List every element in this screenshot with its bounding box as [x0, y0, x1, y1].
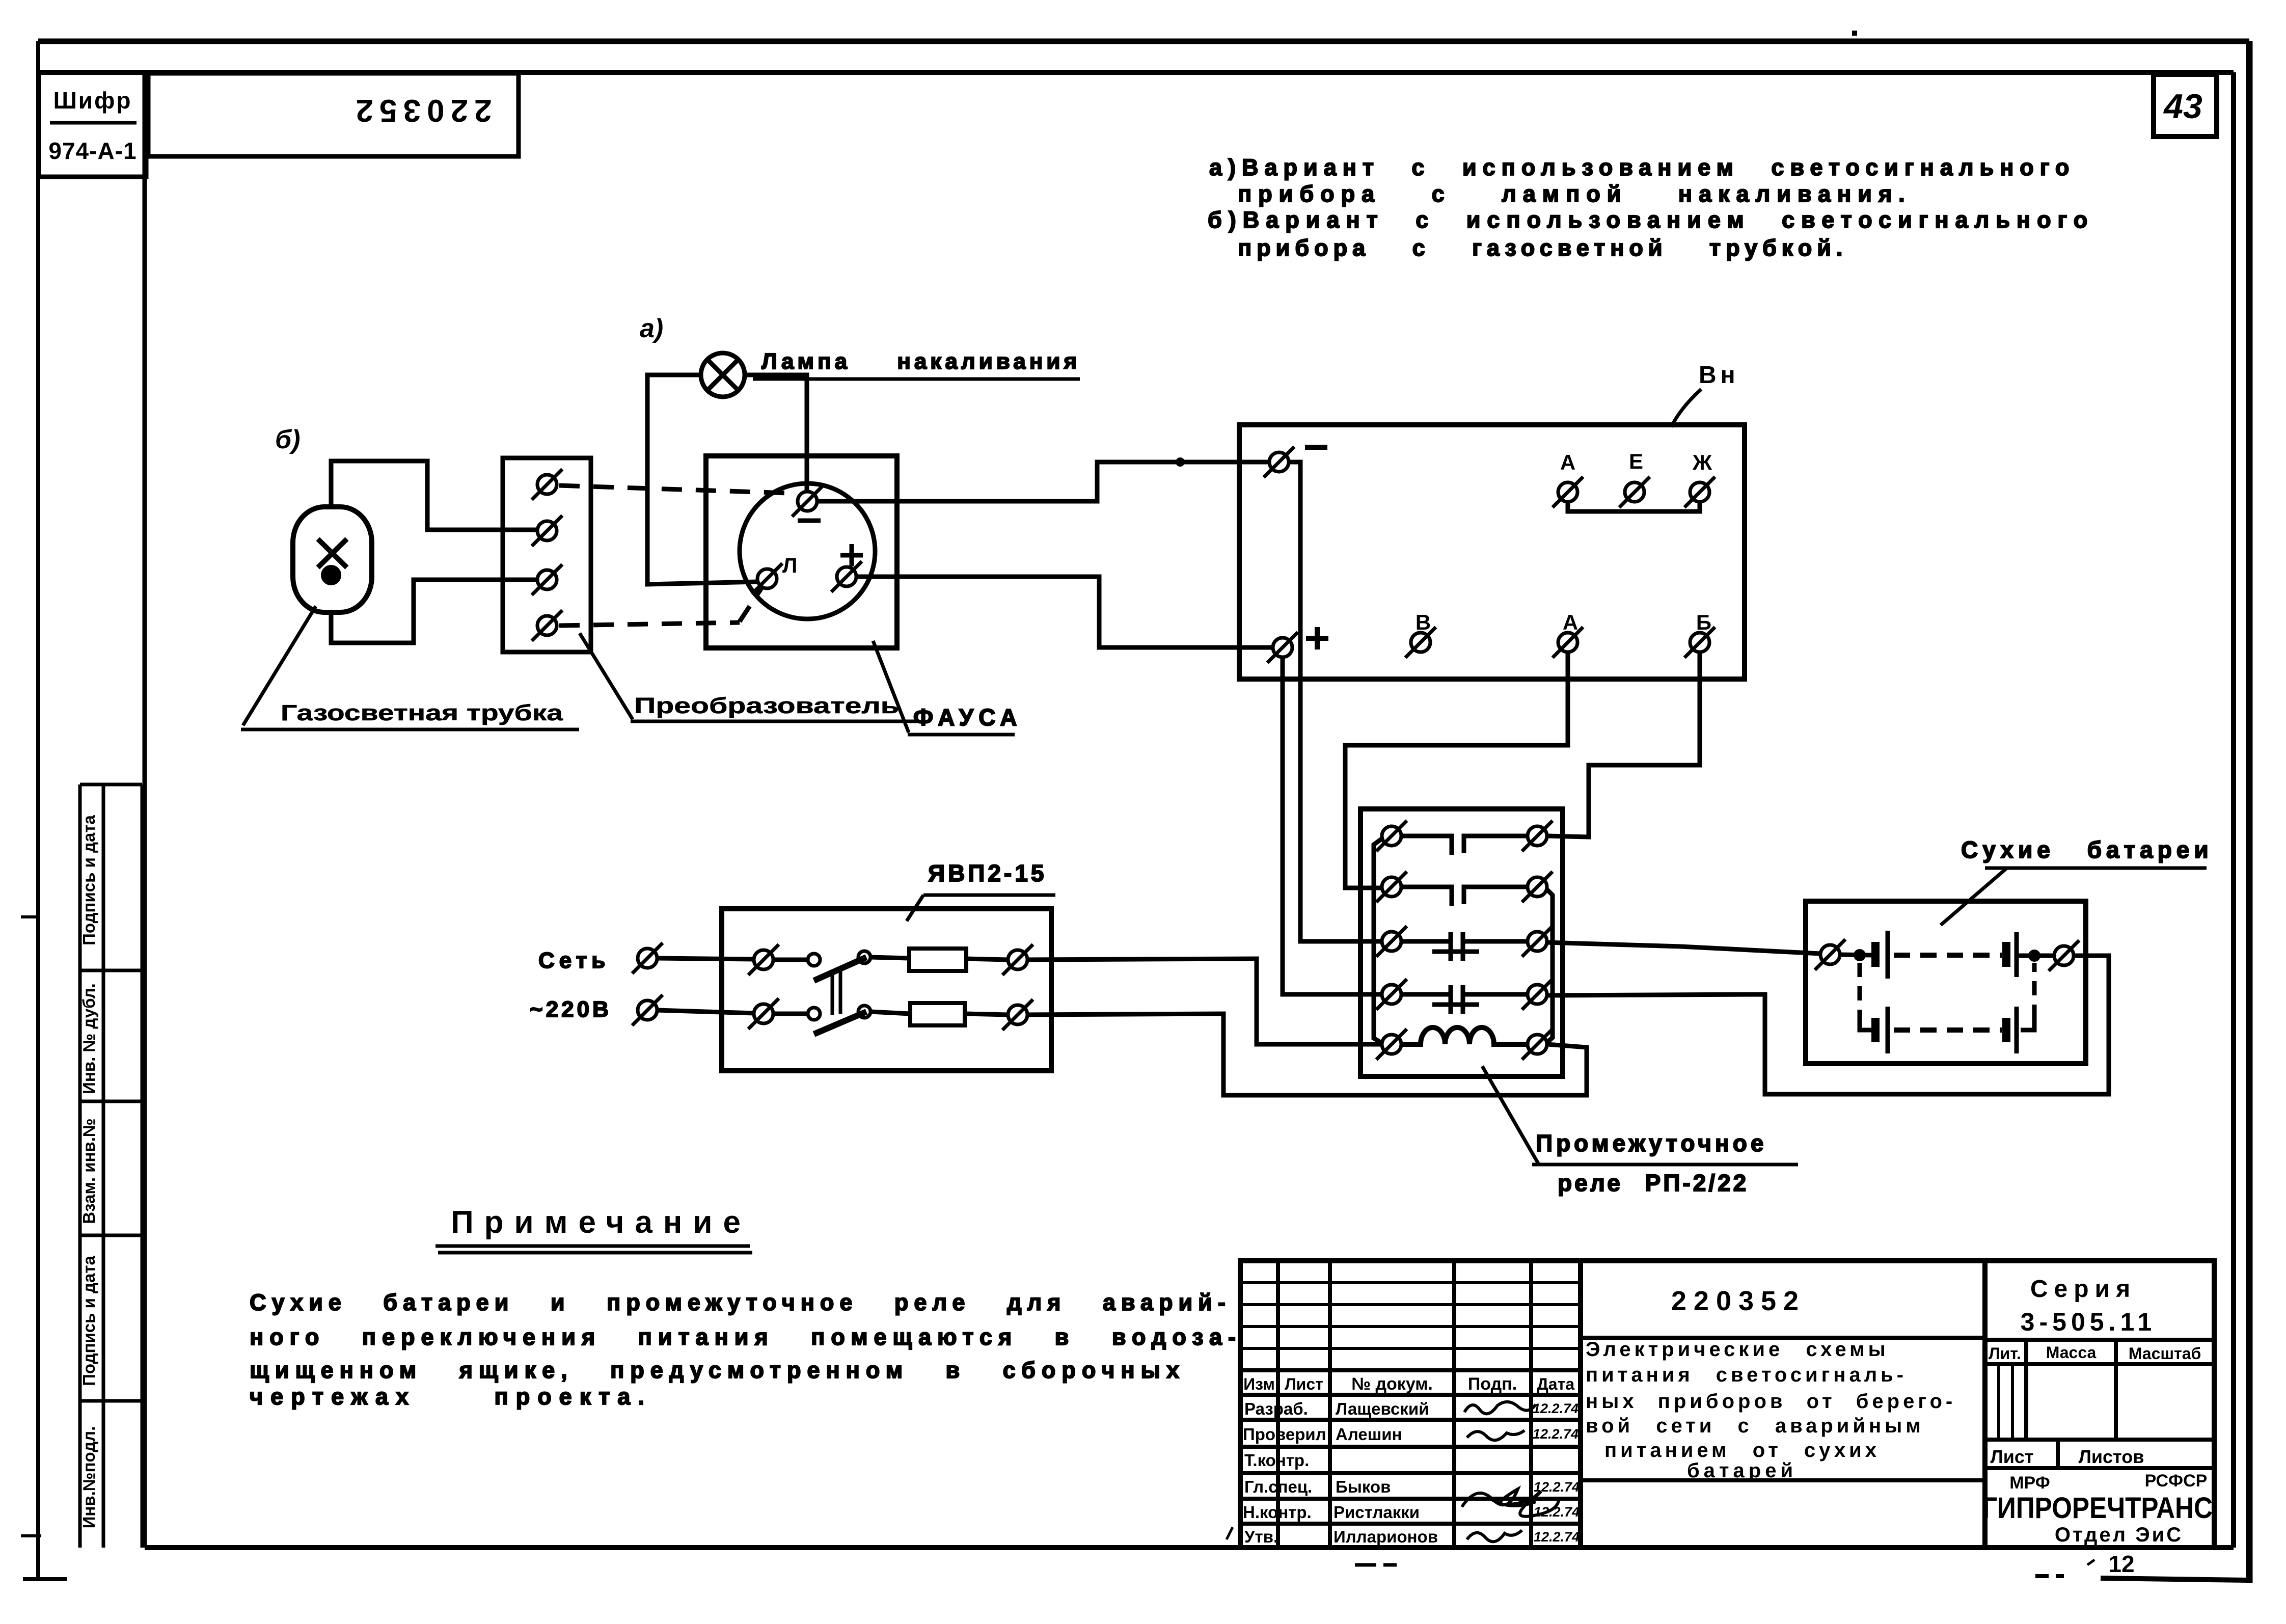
wire pole2 to fuse2	[870, 1012, 910, 1014]
svg-text:Лит.: Лит.	[1989, 1344, 2021, 1363]
relay right bus row2-row5	[1546, 889, 1553, 1043]
wire lamp left leg	[647, 375, 758, 584]
box inner terminal 1	[748, 944, 779, 975]
svg-text:Газосветная трубка: Газосветная трубка	[281, 700, 563, 725]
relay row1 right terminal	[1522, 821, 1553, 851]
svg-text:Утв.: Утв.	[1244, 1527, 1278, 1546]
switch linkage	[831, 970, 834, 1015]
outer border bottom (partial)	[2101, 1578, 2247, 1580]
svg-text:Лист: Лист	[1990, 1446, 2033, 1467]
battery box	[1806, 901, 2086, 1064]
dashed wire strip t4 to FAUSA L	[559, 622, 740, 626]
relay left bus row1-row5	[1374, 838, 1383, 1044]
inner frame bottom	[145, 1545, 2234, 1550]
relay row2 right terminal	[1522, 872, 1553, 902]
svg-text:12.2.74: 12.2.74	[1534, 1529, 1580, 1545]
battery right terminal	[2049, 940, 2079, 971]
svg-text:прибора с лампой накаливания.: прибора с лампой накаливания.	[1238, 181, 1912, 207]
stamp number box 220352	[148, 73, 519, 156]
battery top dashes	[1894, 953, 2002, 958]
wire phase2 into box	[657, 1010, 754, 1013]
relay row3 right terminal	[1522, 926, 1553, 957]
Vn plus terminal	[1267, 632, 1298, 663]
wire relay row4 to battery return	[1547, 956, 2109, 1094]
svg-text:12.2.74: 12.2.74	[1533, 1401, 1579, 1416]
svg-text:Масштаб: Масштаб	[2129, 1344, 2201, 1363]
svg-text:Л: Л	[782, 553, 797, 577]
battery cell 1	[1871, 942, 1880, 967]
box right terminal 1	[1002, 944, 1033, 975]
svg-text:А: А	[1563, 610, 1578, 634]
inner frame left	[143, 72, 147, 1548]
FAUSA box	[706, 456, 897, 648]
fuse 1	[909, 949, 966, 971]
note heading underline	[436, 1244, 750, 1248]
svg-text:Примечание: Примечание	[451, 1205, 751, 1240]
Vn box	[1239, 425, 1745, 679]
strip terminal 2	[532, 516, 562, 546]
svg-text:974-А-1: 974-А-1	[48, 138, 137, 164]
outer border left	[36, 41, 40, 1579]
battery left terminal	[1815, 939, 1845, 970]
switch pole 2 contacts	[808, 1008, 820, 1020]
svg-text:ных приборов от берего-: ных приборов от берего-	[1586, 1390, 1956, 1413]
relay row4 right terminal	[1522, 979, 1553, 1010]
svg-text:12: 12	[2108, 1551, 2134, 1577]
Vn minus terminal	[1264, 447, 1294, 477]
incandescent lamp	[701, 353, 745, 397]
svg-text:Т.контр.: Т.контр.	[1244, 1451, 1309, 1470]
wire tube top to terminal strip	[331, 461, 536, 530]
switch pole 1 contacts	[808, 954, 820, 966]
battery top row wires	[1840, 955, 1872, 955]
svg-text:Сеть: Сеть	[538, 948, 610, 973]
svg-text:Вн: Вн	[1699, 362, 1739, 389]
Vn terminal B bottom	[1684, 627, 1715, 658]
svg-text:3-505.11: 3-505.11	[2021, 1308, 2157, 1336]
Vn terminal Zh top	[1684, 477, 1715, 507]
wire tube bottom to terminal strip	[331, 580, 536, 643]
YAVP2-15 leader	[907, 895, 923, 921]
relay row5 right terminal (coil)	[1522, 1029, 1553, 1060]
svg-text:ГИПРОРЕЧТРАНС: ГИПРОРЕЧТРАНС	[1982, 1492, 2213, 1525]
wire B leg down to relay row1 right	[1547, 653, 1700, 837]
svg-text:Подпись и дата: Подпись и дата	[79, 1256, 98, 1386]
wire minus leg down to relay row3	[1288, 462, 1381, 941]
svg-text:Быков: Быков	[1336, 1477, 1391, 1496]
leader relay	[1482, 1066, 1538, 1163]
fold mark left lower	[21, 1534, 41, 1537]
wire lamp right leg	[745, 375, 807, 490]
svg-text:ного переключения питания поме: ного переключения питания помещаются в в…	[250, 1324, 1242, 1350]
svg-text:Взам. инв.№: Взам. инв.№	[79, 1118, 98, 1224]
wire bracket A to Zh	[1568, 502, 1700, 511]
svg-text:прибора с газосветной трубкой.: прибора с газосветной трубкой.	[1238, 235, 1847, 261]
mains terminal phase 1	[632, 943, 663, 973]
svg-text:Алешин: Алешин	[1336, 1425, 1402, 1444]
svg-text:Инв. № дубл.: Инв. № дубл.	[79, 983, 98, 1094]
dashed wire strip t1 to FAUSA minus	[559, 485, 788, 493]
svg-text:щищенном ящике, предусмотренно: щищенном ящике, предусмотренном в сбороч…	[250, 1357, 1185, 1383]
Vn terminal E top	[1619, 477, 1650, 507]
wire pole1 to fuse1	[870, 957, 909, 958]
switch pole 1 blade	[814, 957, 866, 981]
wire fused phase1 to relay coil left	[1027, 959, 1382, 1044]
svg-text:Инв.№подл.: Инв.№подл.	[79, 1426, 98, 1529]
svg-text:12.2.74: 12.2.74	[1533, 1426, 1579, 1442]
battery junction dot left	[1854, 949, 1866, 961]
svg-text:Сухие батареи и промежуточное: Сухие батареи и промежуточное реле для а…	[250, 1289, 1231, 1315]
svg-text:вой сети с аварийным: вой сети с аварийным	[1586, 1415, 1924, 1437]
wire phase1 into box	[657, 958, 754, 959]
svg-text:Отдел ЭиС: Отдел ЭиС	[2055, 1524, 2183, 1546]
sheet number box 43	[2154, 74, 2217, 137]
Vn terminal V bottom	[1405, 627, 1436, 658]
relay row2 left terminal	[1376, 872, 1407, 902]
svg-text:Листов: Листов	[2079, 1446, 2144, 1467]
strip terminal 3	[532, 564, 562, 595]
svg-text:Н.контр.: Н.контр.	[1243, 1503, 1312, 1522]
outer border bottom left foot	[23, 1577, 67, 1581]
svg-text:Промежуточное: Промежуточное	[1536, 1130, 1767, 1156]
svg-text:а): а)	[640, 314, 663, 343]
smudge marks below signature column	[1355, 1563, 1376, 1567]
svg-text:Подпись и дата: Подпись и дата	[79, 815, 98, 945]
mains terminal phase 2	[632, 995, 663, 1025]
Vn terminal A bottom	[1553, 627, 1583, 658]
wire FAUSA plus to Vn	[856, 577, 1273, 647]
svg-text:~220В: ~220В	[530, 997, 612, 1022]
svg-text:Лампа накаливания: Лампа накаливания	[761, 349, 1080, 374]
wire A leg down to relay row2	[1345, 653, 1568, 888]
wire relay row3 to battery	[1547, 942, 1820, 954]
wire FAUSA minus to Vn	[817, 462, 1269, 501]
box inner terminal 2	[748, 998, 779, 1029]
YAVP2-15 box	[722, 909, 1051, 1071]
strip terminal 4	[532, 610, 562, 641]
svg-text:43: 43	[2163, 87, 2202, 126]
fold mark top center	[1852, 31, 1857, 36]
outer border right	[2246, 41, 2253, 1583]
svg-text:Дата: Дата	[1537, 1375, 1574, 1393]
label relay underline	[1532, 1163, 1798, 1167]
svg-text:питанием от сухих: питанием от сухих	[1604, 1439, 1880, 1461]
fuse 2	[910, 1003, 965, 1025]
battery lower row left dashed leg	[1858, 963, 1862, 1019]
battery cell 3	[1871, 1018, 1880, 1042]
svg-text:Подп.: Подп.	[1468, 1374, 1517, 1394]
svg-text:Серия: Серия	[2030, 1276, 2136, 1303]
battery lower row right dashed leg	[2021, 1019, 2034, 1030]
FAUSA L terminal	[752, 563, 782, 594]
svg-text:220352: 220352	[1671, 1286, 1806, 1316]
FAUSA plus terminal	[831, 561, 862, 592]
svg-text:б)Вариант с использованием све: б)Вариант с использованием светосигнальн…	[1208, 207, 2094, 233]
svg-text:Масса: Масса	[2046, 1343, 2097, 1362]
Vn leader	[1671, 389, 1701, 427]
svg-text:Сухие батареи: Сухие батареи	[1961, 836, 2213, 863]
battery bottom dashes	[1894, 1027, 2002, 1033]
svg-text:МРФ: МРФ	[2009, 1473, 2050, 1493]
svg-text:питания светосигналь-: питания светосигналь-	[1586, 1364, 1907, 1386]
battery junction dot right	[2028, 950, 2040, 962]
svg-text:Б: Б	[1696, 610, 1711, 634]
box right terminal 2	[1002, 999, 1033, 1030]
battery cell 2	[2002, 942, 2010, 967]
svg-text:Ж: Ж	[1692, 450, 1712, 474]
svg-text:Электрические схемы: Электрические схемы	[1586, 1338, 1889, 1361]
wire to switch pole 1	[773, 958, 808, 962]
inner frame right	[2231, 72, 2236, 1548]
svg-text:Проверил: Проверил	[1243, 1425, 1326, 1444]
label underline	[1985, 867, 2207, 870]
converter terminal strip box	[503, 458, 591, 652]
FAUSA minus terminal	[792, 486, 823, 517]
wire to switch pole 2	[773, 1012, 808, 1016]
svg-text:220352: 220352	[350, 93, 492, 128]
svg-text:Е: Е	[1629, 449, 1643, 473]
svg-text:Лист: Лист	[1285, 1375, 1323, 1393]
FAUSA circle	[740, 483, 875, 619]
inner frame top	[39, 70, 2234, 75]
svg-text:В: В	[1416, 610, 1431, 634]
svg-text:Разраб.: Разраб.	[1244, 1399, 1308, 1418]
svg-text:б): б)	[275, 425, 301, 454]
signatures	[1462, 1402, 1559, 1541]
svg-text:Лащевский: Лащевский	[1336, 1399, 1429, 1418]
battery cell 4	[2002, 1018, 2010, 1042]
relay row3 left terminal	[1376, 926, 1407, 957]
outer border top	[38, 39, 2249, 44]
svg-text:а)Вариант с использованием све: а)Вариант с использованием светосигнальн…	[1209, 154, 2075, 180]
relay row4 make contact	[1401, 985, 1528, 1014]
svg-text:Изм: Изм	[1243, 1375, 1275, 1393]
svg-text:батарей: батарей	[1687, 1459, 1797, 1482]
svg-text:Преобразователь: Преобразователь	[634, 693, 899, 718]
wire plus leg down to relay row4	[1283, 658, 1381, 994]
fold mark left middle	[21, 915, 39, 918]
svg-text:А: А	[1560, 450, 1575, 474]
leader gas tube	[243, 606, 316, 725]
relay RP-2/22 box	[1360, 809, 1563, 1076]
svg-text:ФАУСА: ФАУСА	[913, 704, 1022, 730]
gas tube lamp	[293, 507, 372, 612]
relay row1 break contact	[1401, 836, 1528, 855]
strip terminal 1	[532, 469, 562, 500]
relay row4 left terminal	[1376, 979, 1407, 1010]
relay row3 make contact	[1401, 932, 1528, 961]
svg-text:Ристлакки: Ристлакки	[1333, 1503, 1420, 1522]
svg-text:Гл.спец.: Гл.спец.	[1244, 1477, 1312, 1496]
svg-text:чертежах проекта.: чертежах проекта.	[250, 1384, 652, 1410]
leader converter	[580, 633, 633, 719]
svg-text:Илларионов: Илларионов	[1333, 1527, 1438, 1546]
svg-text:№ докум.: № докум.	[1351, 1374, 1433, 1394]
title block frame	[1227, 1261, 2214, 1565]
svg-text:РСФСР: РСФСР	[2145, 1471, 2208, 1491]
svg-text:реле РП-2/22: реле РП-2/22	[1558, 1170, 1749, 1196]
switch pole 2 blade	[814, 1012, 866, 1034]
svg-text:Шифр: Шифр	[53, 87, 132, 114]
relay row2 break contact	[1401, 887, 1528, 906]
svg-text:ЯВП2-15: ЯВП2-15	[928, 860, 1047, 886]
relay coil	[1401, 1027, 1528, 1044]
junction dot on minus wire	[1176, 457, 1185, 467]
slash left of title block	[1227, 1527, 1233, 1539]
Vn terminal A top	[1553, 477, 1583, 507]
cipher box	[39, 72, 146, 177]
relay row5 left terminal (coil)	[1376, 1029, 1407, 1060]
relay row1 left terminal	[1376, 821, 1407, 851]
side stamp column	[80, 784, 142, 1548]
leader dry batteries	[1941, 868, 2007, 925]
wire fused phase2 to relay coil right	[1027, 1014, 1587, 1095]
leader FAUSA	[873, 641, 909, 733]
YAVP2-15 label underline	[923, 894, 1055, 897]
